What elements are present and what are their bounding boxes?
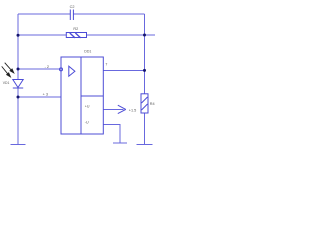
svg-text:DD1: DD1 — [84, 50, 91, 54]
svg-text:- 2: - 2 — [45, 65, 49, 69]
svg-text:R2: R2 — [73, 27, 78, 31]
svg-text:+ 3: + 3 — [43, 92, 48, 96]
svg-text:VD1: VD1 — [3, 81, 10, 85]
svg-text:-U: -U — [85, 121, 89, 125]
svg-text:7: 7 — [105, 62, 107, 66]
svg-text:C2: C2 — [70, 5, 75, 9]
svg-text:R4: R4 — [150, 102, 155, 106]
svg-text:+1.5: +1.5 — [129, 108, 137, 112]
svg-text:+U: +U — [85, 105, 90, 109]
